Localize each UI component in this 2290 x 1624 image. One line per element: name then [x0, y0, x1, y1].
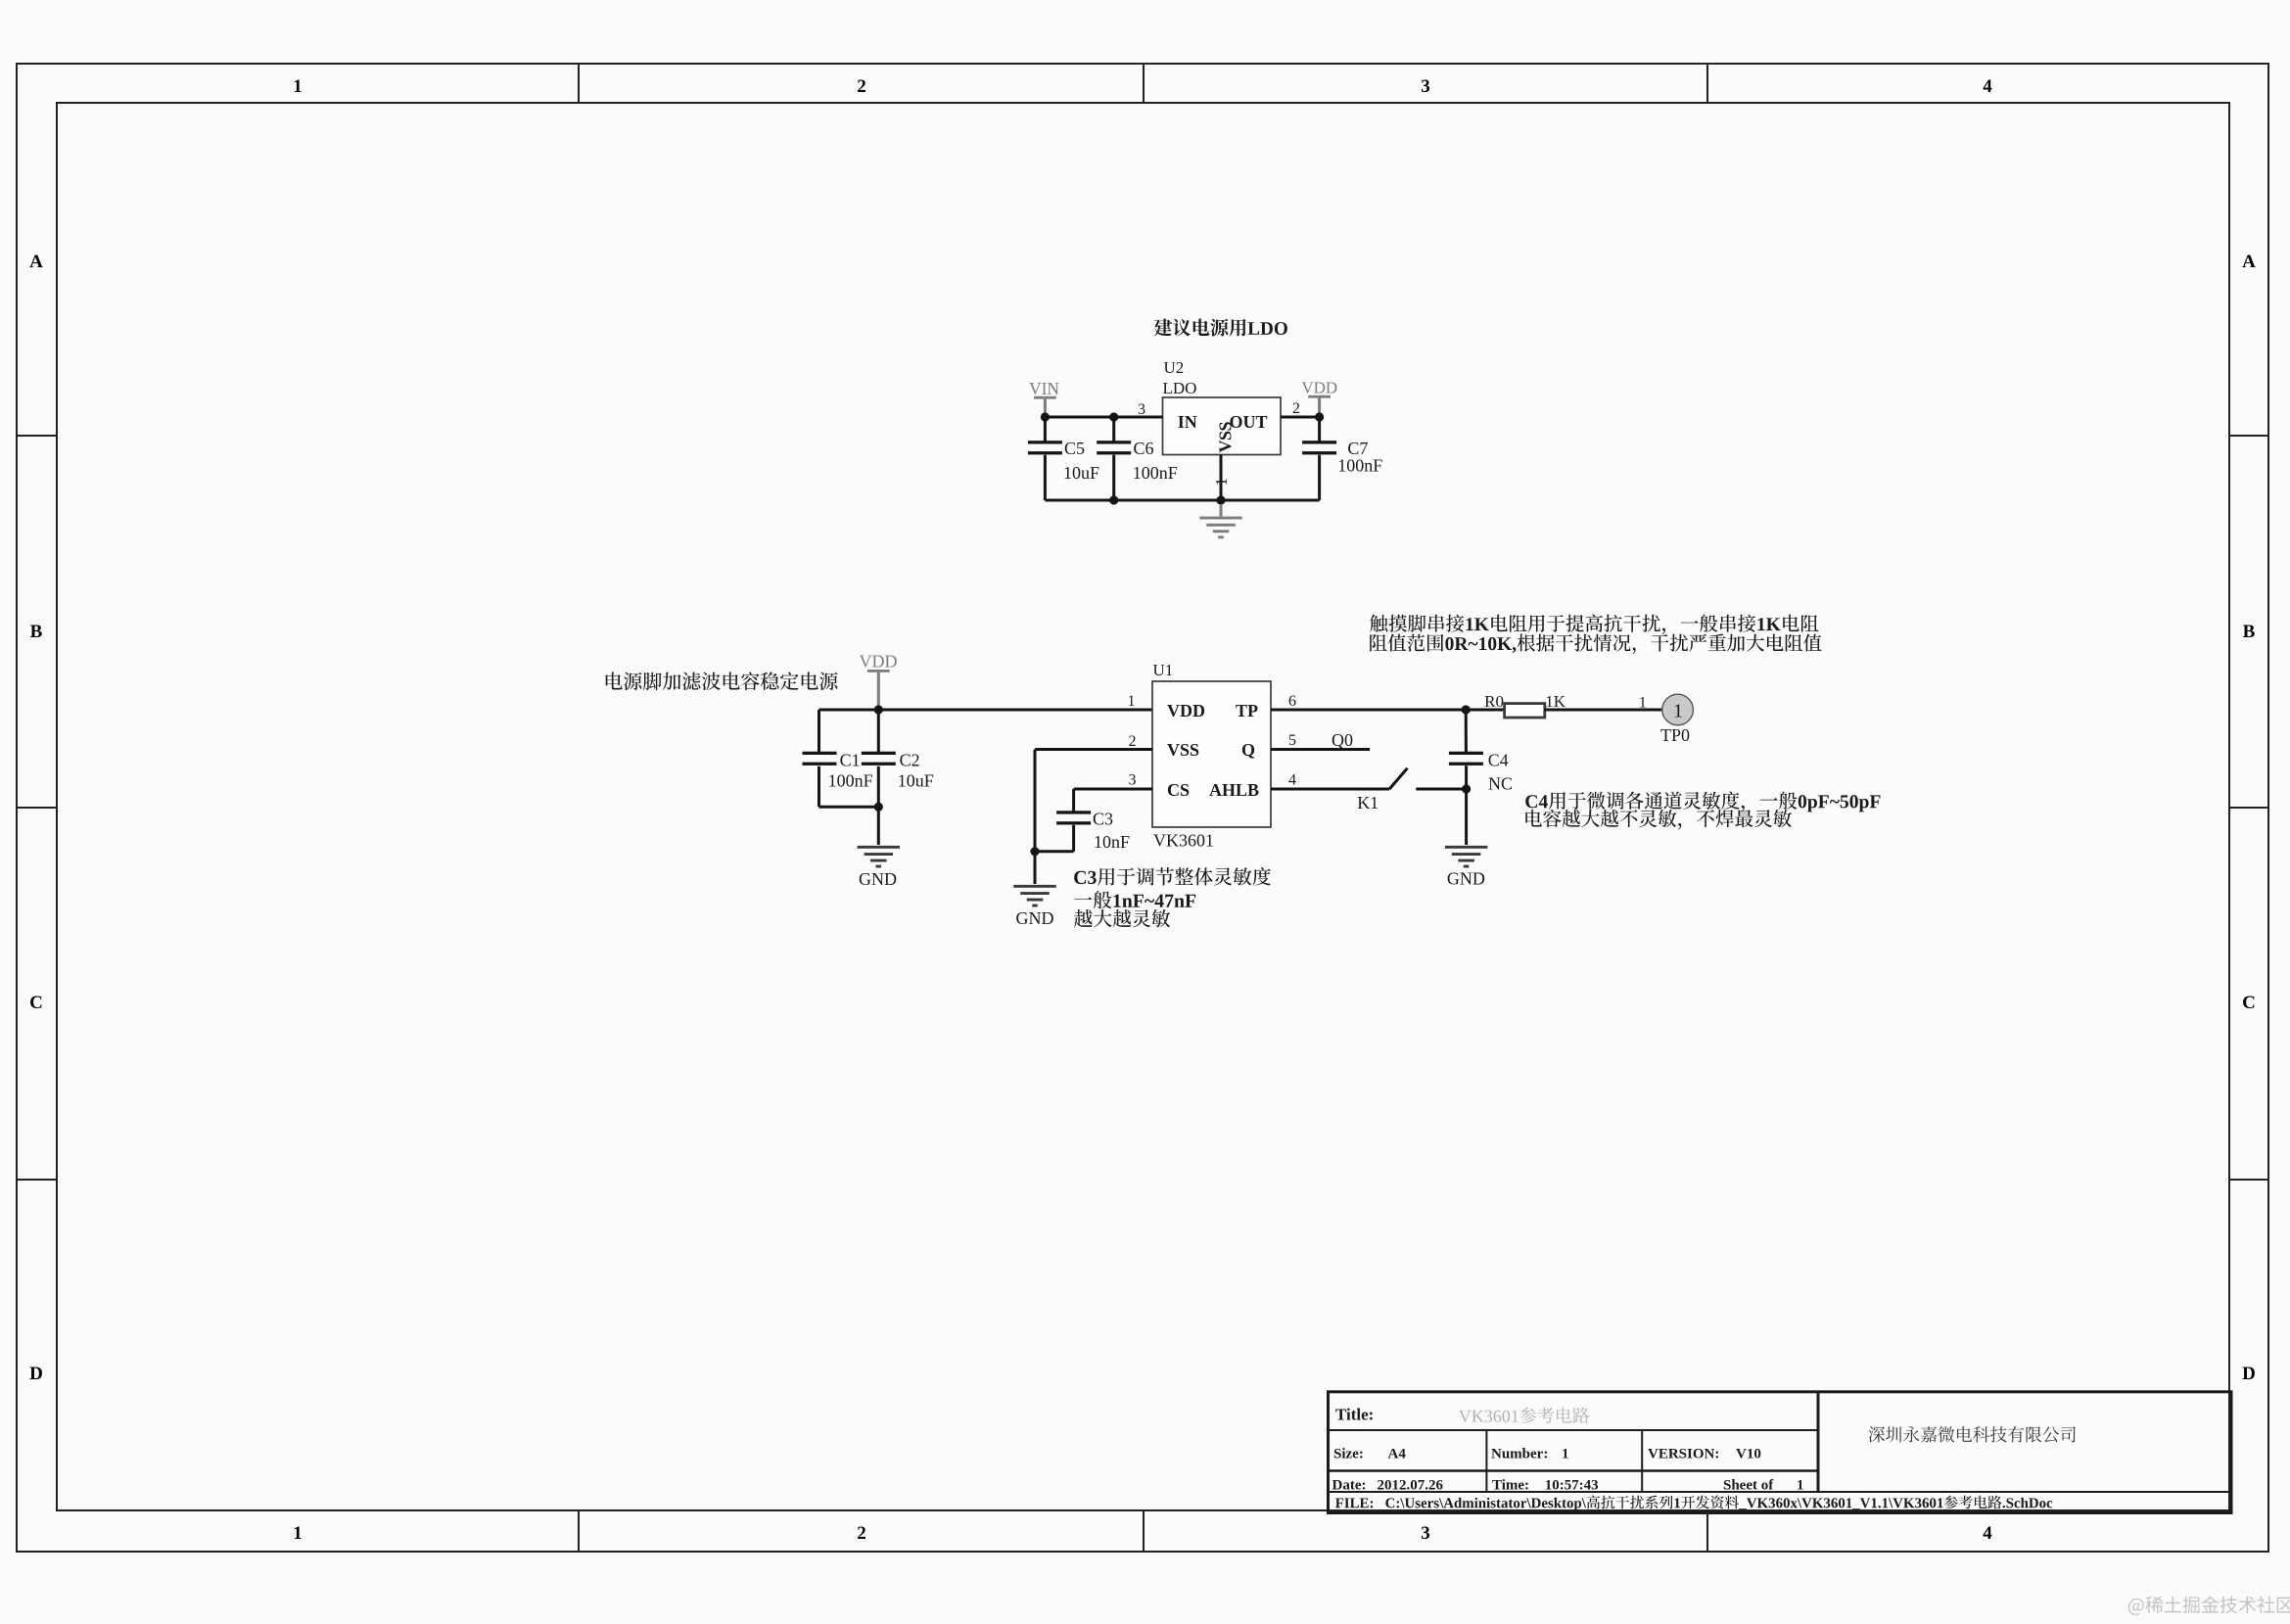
- svg-text:R0: R0: [1484, 692, 1504, 711]
- svg-text:AHLB: AHLB: [1209, 780, 1259, 800]
- svg-text:VK3601: VK3601: [1153, 831, 1214, 851]
- svg-text:VSS: VSS: [1167, 740, 1199, 760]
- svg-text:NC: NC: [1488, 774, 1513, 794]
- svg-text:100nF: 100nF: [1337, 456, 1382, 476]
- svg-text:GND: GND: [859, 869, 897, 889]
- svg-text:10uF: 10uF: [1063, 463, 1099, 483]
- svg-text:A: A: [2242, 252, 2256, 272]
- svg-text:1: 1: [1797, 1478, 1804, 1494]
- svg-text:10nF: 10nF: [1094, 832, 1130, 852]
- svg-text:2: 2: [857, 1523, 866, 1544]
- svg-text:D: D: [29, 1364, 43, 1384]
- svg-text:VDD: VDD: [860, 652, 898, 672]
- svg-text:U2: U2: [1164, 358, 1185, 377]
- svg-text:Q: Q: [1241, 740, 1255, 760]
- svg-text:100nF: 100nF: [828, 771, 873, 791]
- svg-text:U1: U1: [1153, 661, 1174, 679]
- svg-text:Number:: Number:: [1491, 1447, 1548, 1462]
- svg-text:Sheet of: Sheet of: [1723, 1478, 1774, 1494]
- svg-text:CS: CS: [1167, 780, 1190, 800]
- svg-text:10:57:43: 10:57:43: [1545, 1478, 1599, 1494]
- svg-text:1: 1: [1639, 695, 1647, 712]
- svg-text:VDD: VDD: [1167, 701, 1205, 720]
- svg-text:A4: A4: [1388, 1447, 1407, 1462]
- svg-text:2012.07.26: 2012.07.26: [1378, 1478, 1444, 1494]
- svg-text:1: 1: [293, 1523, 303, 1544]
- svg-text:VSS: VSS: [1216, 421, 1236, 452]
- svg-text:K1: K1: [1357, 793, 1379, 812]
- svg-text:4: 4: [1288, 772, 1296, 789]
- svg-text:A: A: [29, 252, 43, 272]
- svg-text:C: C: [2242, 993, 2256, 1013]
- svg-text:TP0: TP0: [1660, 725, 1690, 745]
- svg-text:D: D: [2242, 1364, 2256, 1384]
- svg-text:LDO: LDO: [1163, 379, 1197, 397]
- svg-text:1: 1: [1562, 1447, 1569, 1462]
- svg-text:2: 2: [1292, 400, 1300, 417]
- svg-text:GND: GND: [1447, 869, 1485, 889]
- svg-text:2: 2: [1129, 733, 1137, 750]
- svg-text:Date:: Date:: [1332, 1478, 1367, 1494]
- svg-text:2: 2: [857, 76, 866, 97]
- svg-text:IN: IN: [1178, 412, 1197, 432]
- svg-text:4: 4: [1983, 76, 1992, 97]
- svg-text:10uF: 10uF: [898, 771, 934, 791]
- svg-text:Q0: Q0: [1332, 730, 1353, 750]
- svg-text:3: 3: [1129, 772, 1137, 789]
- svg-text:1K: 1K: [1545, 692, 1566, 711]
- svg-text:B: B: [30, 622, 43, 642]
- svg-text:Time:: Time:: [1492, 1478, 1529, 1494]
- svg-text:1: 1: [1673, 701, 1683, 722]
- svg-text:C2: C2: [900, 751, 920, 770]
- svg-text:Size:: Size:: [1333, 1447, 1364, 1462]
- svg-text:VERSION:: VERSION:: [1648, 1447, 1719, 1462]
- svg-text:C: C: [29, 993, 43, 1013]
- svg-text:4: 4: [1983, 1523, 1992, 1544]
- svg-text:B: B: [2243, 622, 2256, 642]
- svg-text:1: 1: [293, 76, 303, 97]
- svg-text:C6: C6: [1134, 439, 1154, 458]
- svg-text:5: 5: [1288, 732, 1296, 749]
- svg-text:3: 3: [1421, 1523, 1430, 1544]
- svg-text:GND: GND: [1016, 908, 1054, 928]
- svg-text:C3: C3: [1093, 810, 1113, 829]
- svg-text:V10: V10: [1736, 1447, 1761, 1462]
- svg-text:6: 6: [1288, 693, 1296, 710]
- svg-text:Title:: Title:: [1335, 1406, 1374, 1424]
- svg-text:VIN: VIN: [1029, 379, 1059, 398]
- svg-text:100nF: 100nF: [1133, 463, 1178, 483]
- svg-text:TP: TP: [1236, 701, 1258, 720]
- svg-text:3: 3: [1421, 76, 1430, 97]
- svg-text:C5: C5: [1064, 439, 1085, 458]
- svg-text:3: 3: [1138, 401, 1145, 418]
- svg-text:1: 1: [1128, 693, 1136, 710]
- svg-text:C4: C4: [1488, 751, 1509, 770]
- svg-text:C1: C1: [840, 751, 861, 770]
- svg-text:VDD: VDD: [1301, 379, 1337, 397]
